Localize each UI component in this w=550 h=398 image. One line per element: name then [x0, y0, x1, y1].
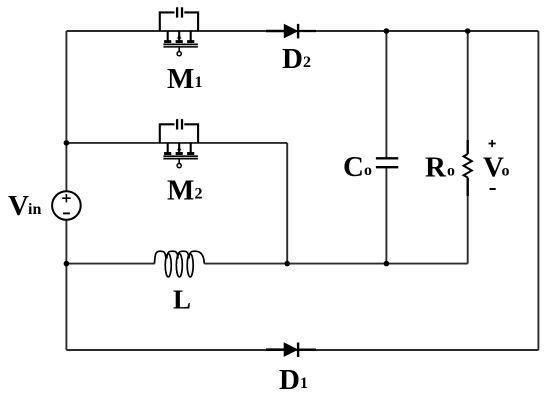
svg-text:o: o: [447, 163, 455, 180]
svg-text:o: o: [364, 162, 372, 179]
svg-text:1: 1: [195, 74, 203, 91]
source Vin circle: [52, 191, 81, 220]
svg-text:2: 2: [303, 54, 311, 71]
svg-text:2: 2: [195, 186, 203, 203]
svg-text:in: in: [28, 201, 41, 218]
transistor M2 (MOSFET with parallel capacitor): [160, 119, 198, 168]
node junction dot (Ro top / top rail): [465, 28, 471, 34]
wire bottom rail: [66, 349, 538, 351]
node junction dot (left rail / M2 branch): [64, 140, 70, 146]
wire left rail upper (to Vin source): [65, 31, 67, 191]
node junction dot (Co bottom / inductor rail): [384, 261, 390, 267]
capacitor Co plates: [376, 158, 398, 167]
svg-text:L: L: [173, 285, 191, 315]
wire inductor rail left segment: [66, 263, 154, 265]
label minus (Vo polarity): [490, 188, 496, 190]
wire Co branch upper: [385, 31, 387, 158]
wire M2 branch vertical drop: [286, 143, 288, 264]
svg-text:D: D: [282, 43, 303, 75]
svg-text:M: M: [167, 63, 194, 95]
svg-text:o: o: [502, 163, 510, 180]
wire inductor rail right segment: [204, 263, 467, 265]
wire Co branch lower: [385, 167, 387, 263]
svg-text:M: M: [167, 175, 194, 207]
wire M2 branch horizontal: [66, 142, 287, 144]
svg-text:V: V: [8, 190, 29, 222]
inductor L: [155, 251, 205, 277]
diode D2: [266, 24, 316, 39]
svg-text:1: 1: [300, 375, 308, 392]
node junction dot (left rail / inductor rail): [64, 261, 70, 267]
svg-text:D: D: [279, 364, 300, 396]
node junction dot (Co top / top rail): [384, 28, 390, 34]
wire left rail lower (from Vin source): [65, 220, 67, 350]
wire top rail: [66, 30, 538, 32]
node junction dot (M2 drop / inductor rail): [284, 261, 290, 267]
wire Ro branch lower: [467, 178, 469, 264]
wire Ro branch upper: [467, 31, 469, 154]
svg-text:C: C: [343, 151, 364, 183]
label plus (Vo polarity): [489, 140, 496, 147]
diode D1: [266, 343, 316, 358]
svg-text:R: R: [425, 152, 447, 184]
wire right rail: [537, 31, 539, 350]
resistor Ro zigzag: [464, 140, 472, 196]
transistor M1 (MOSFET with parallel capacitor): [160, 7, 198, 56]
